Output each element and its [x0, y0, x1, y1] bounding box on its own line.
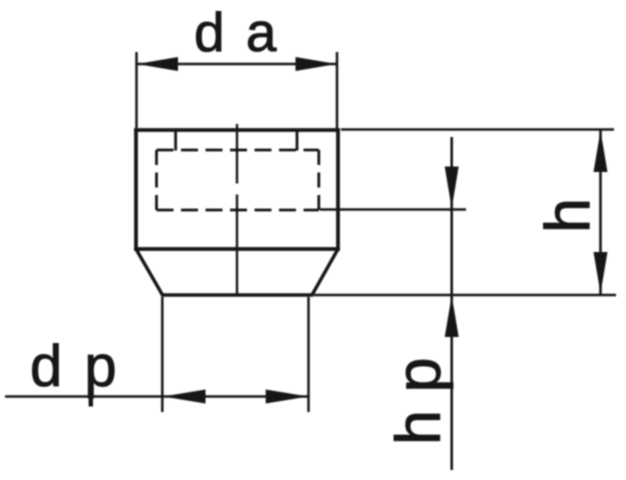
- dimension dp extension line right: [307, 297, 310, 412]
- dimension da extension line left: [135, 52, 138, 128]
- hidden thread hole top (dashed): [157, 149, 319, 152]
- dimension hp arrow down: [445, 167, 459, 209]
- dimension da arrow right: [296, 57, 337, 71]
- counterbore edge left: [174, 130, 177, 151]
- hidden thread hole bottom (dashed): [157, 209, 319, 212]
- cone right side: [312, 249, 338, 295]
- part body right edge: [336, 128, 340, 250]
- dimension h arrow bottom: [594, 252, 608, 294]
- dimension da extension line right: [336, 52, 339, 128]
- label d p descender stroke: [89, 394, 93, 407]
- svg-text:d a: d a: [194, 1, 279, 63]
- part body top face: [134, 128, 340, 132]
- dimension dp arrow left: [163, 390, 206, 404]
- dimension h bottom extension line: [314, 294, 616, 297]
- dimension dp arrow right: [266, 390, 309, 404]
- bottom face: [161, 293, 314, 297]
- dimension dp line: [5, 395, 309, 398]
- vertical centerline: [236, 124, 238, 295]
- dimension h arrow top: [594, 131, 608, 173]
- svg-text:h p: h p: [384, 357, 454, 445]
- cone left side: [136, 249, 163, 295]
- counterbore edge right: [296, 130, 299, 151]
- dimension hp arrow up: [445, 296, 459, 338]
- svg-text:d p: d p: [30, 334, 120, 399]
- hidden thread hole right (dashed): [317, 150, 320, 210]
- dimension dp extension line left: [161, 297, 164, 412]
- part body bottom edge: [134, 247, 340, 251]
- dimension da arrow left: [137, 57, 178, 71]
- svg-text:h: h: [534, 198, 604, 233]
- dimension hp line: [450, 137, 453, 470]
- dimension h line: [599, 130, 602, 294]
- part body left edge: [134, 128, 138, 250]
- dimension da line: [137, 63, 338, 66]
- dimension h top extension line: [341, 128, 614, 131]
- hidden thread hole left (dashed): [155, 150, 158, 210]
- dimension hp extension line (thread bottom): [320, 208, 466, 211]
